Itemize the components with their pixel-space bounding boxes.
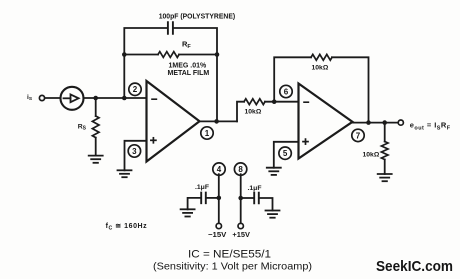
pin 2 circled label	[129, 83, 141, 95]
wire pin5 non-inverting input to ground	[274, 142, 299, 168]
ground (pin 3)	[118, 170, 132, 177]
svg-text:3: 3	[132, 147, 137, 156]
wire feedback left vertical	[124, 28, 167, 98]
op-amp U2 plus sign	[303, 139, 308, 144]
op-amp U2 minus sign	[304, 101, 308, 103]
svg-text:5: 5	[283, 149, 288, 158]
node e_out terminal	[398, 120, 403, 125]
pin 3 circled label	[128, 145, 140, 157]
svg-text:METAL FILM: METAL FILM	[168, 70, 210, 77]
wire pin8 cap right lead to ground	[260, 198, 273, 211]
svg-text:10kΩ: 10kΩ	[363, 152, 380, 159]
wire RS bottom lead	[95, 138, 97, 156]
op-amp U1 minus sign	[152, 98, 156, 100]
wire current source to op-amp inverting input	[84, 97, 147, 99]
svg-text:.1μF: .1μF	[195, 184, 209, 191]
svg-text:4: 4	[217, 165, 222, 174]
svg-text:1: 1	[205, 129, 210, 138]
wire 10k series to U2 inverting input	[265, 101, 299, 103]
wire pin8 cap left lead	[241, 197, 254, 199]
resistor RF	[158, 52, 179, 58]
pin 8 circled label	[234, 163, 246, 175]
resistor R2 10k series	[244, 99, 265, 105]
svg-text:100pF (POLYSTYRENE): 100pF (POLYSTYRENE)	[159, 13, 236, 20]
svg-text:eout = ISRF: eout = ISRF	[410, 121, 451, 132]
node pin4 bypass junction	[217, 196, 222, 201]
svg-text:iS: iS	[27, 94, 33, 102]
resistor RS	[92, 116, 99, 138]
wire capacitor to right vertical	[174, 28, 217, 121]
wire U1 output	[200, 120, 238, 122]
pin 4 circled label	[213, 163, 225, 175]
current source iS	[61, 87, 84, 110]
svg-text:IC = NE/SE55/1: IC = NE/SE55/1	[188, 249, 271, 261]
node feedback / output junction U1	[214, 119, 219, 124]
wire U2 feedback right vertical	[332, 57, 369, 122]
node RF left junction	[122, 52, 127, 57]
svg-text:(Sensitivity: 1 Volt per Micro: (Sensitivity: 1 Volt per Microamp)	[153, 260, 312, 272]
ground (pin4 bypass)	[181, 209, 195, 216]
capacitor C1 100pF	[168, 22, 173, 34]
svg-text:−15V: −15V	[208, 230, 227, 239]
node junction current source / RS	[93, 96, 98, 101]
wire pin4 cap right lead	[207, 197, 219, 199]
node -15V terminal	[216, 223, 221, 228]
svg-text:6: 6	[284, 87, 289, 96]
wire pin4 cap left lead to ground	[188, 198, 201, 209]
svg-text:7: 7	[356, 131, 361, 140]
op-amp U1 plus sign	[151, 138, 156, 143]
pin 6 circled label	[280, 85, 292, 97]
svg-text:RF: RF	[182, 40, 191, 51]
resistor R3 10k feedback	[311, 54, 332, 60]
pin 4 wire down to -15V terminal	[218, 174, 220, 223]
ground (pin8 bypass)	[266, 211, 280, 218]
svg-text:10kΩ: 10kΩ	[312, 65, 329, 72]
pin 5 circled label	[279, 147, 291, 159]
capacitor C3 .1uF (pin 8)	[254, 193, 259, 204]
svg-text:RS: RS	[78, 123, 87, 131]
svg-text:2: 2	[133, 85, 138, 94]
ground (RS)	[89, 156, 103, 163]
resistor R4 10k load	[381, 142, 388, 160]
node U2 feedback / output junction	[366, 120, 371, 125]
svg-text:.1μF: .1μF	[248, 185, 262, 192]
wire 10k load top lead	[384, 123, 386, 142]
node +15V terminal	[238, 223, 243, 228]
wire U2 output	[353, 122, 399, 124]
wire pin3 non-inverting input to ground	[125, 141, 147, 171]
capacitor C2 .1uF (pin 4)	[201, 193, 206, 204]
ground (output load)	[378, 174, 392, 181]
svg-text:8: 8	[238, 165, 243, 174]
pin 1 circled label	[201, 127, 213, 139]
wire RS top lead	[95, 98, 97, 116]
wire 10k load bottom lead	[384, 160, 386, 175]
node junction feedback / inverting input	[122, 96, 127, 101]
wire U2 feedback left vertical	[274, 57, 311, 101]
node RF right junction	[215, 52, 220, 57]
op-amp U2 triangle	[299, 84, 353, 159]
pin 7 circled label	[352, 129, 364, 141]
ground (pin 5)	[267, 168, 281, 175]
node pin8 bypass junction	[238, 196, 243, 201]
wire input terminal to current source	[45, 97, 61, 99]
node pin 6 junction	[272, 99, 277, 104]
svg-text:fC ≅ 160Hz: fC ≅ 160Hz	[106, 223, 148, 232]
svg-text:10kΩ: 10kΩ	[245, 108, 262, 115]
pin 8 wire down to +15V terminal	[240, 174, 242, 223]
op-amp U1 triangle	[147, 81, 200, 162]
node iS input terminal	[39, 95, 44, 100]
svg-text:+15V: +15V	[232, 230, 250, 239]
wire RF row right	[179, 54, 217, 56]
svg-text:1MEG .01%: 1MEG .01%	[169, 62, 208, 69]
svg-text:SeekIC.com: SeekIC.com	[376, 259, 453, 275]
wire corner up to 10k series resistor	[237, 102, 244, 122]
node output / load junction	[382, 120, 387, 125]
wire RF row left	[124, 54, 158, 56]
